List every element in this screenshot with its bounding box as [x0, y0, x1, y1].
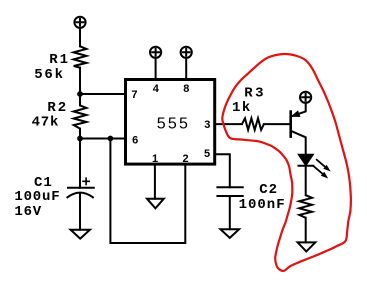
- svg-text:3: 3: [204, 119, 210, 131]
- svg-text:47k: 47k: [32, 115, 60, 131]
- svg-text:100nF: 100nF: [239, 197, 286, 213]
- svg-text:C2: C2: [259, 182, 278, 198]
- svg-text:R1: R1: [49, 52, 70, 68]
- svg-text:1: 1: [152, 153, 158, 165]
- svg-text:4: 4: [153, 83, 160, 95]
- svg-text:R2: R2: [47, 100, 68, 116]
- svg-text:1k: 1k: [232, 100, 252, 116]
- svg-text:6: 6: [132, 134, 138, 146]
- svg-text:100uF: 100uF: [14, 189, 60, 205]
- svg-text:2: 2: [182, 153, 188, 165]
- svg-text:555: 555: [157, 116, 190, 133]
- svg-text:8: 8: [183, 83, 189, 95]
- svg-text:56k: 56k: [34, 67, 65, 83]
- svg-text:5: 5: [204, 148, 210, 160]
- svg-text:16V: 16V: [14, 204, 42, 220]
- svg-text:7: 7: [131, 89, 137, 101]
